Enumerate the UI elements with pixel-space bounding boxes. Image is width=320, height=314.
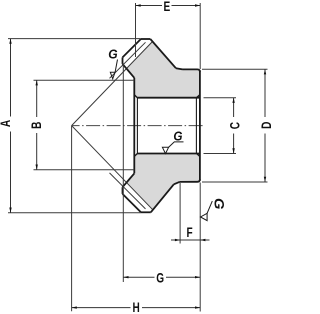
gear body upper gray section — [127, 41, 200, 98]
svg-text:G: G — [156, 270, 164, 286]
bore top surface — [137, 97, 200, 99]
centerline (dash-dot) — [72, 125, 204, 127]
dimension B extension line top — [34, 79, 135, 81]
dimension A line — [10, 39, 12, 213]
surface finish symbol bottom-right (rotated, points at back face): closed triangle — [201, 213, 208, 220]
svg-text:C: C — [227, 122, 243, 129]
gear outline: back cone edge bottom — [151, 184, 174, 212]
svg-text:D: D — [259, 121, 271, 128]
gear outline: front hub face — [133, 78, 135, 174]
dimension H extension line left (from apex) — [71, 126, 73, 312]
gear outline: crown flat top — [141, 38, 150, 40]
dimension B line — [36, 80, 38, 170]
pitch cone line upper (thin, apex to back cone) — [72, 41, 153, 126]
dimension C extension line top — [204, 97, 237, 99]
gear outline: bore entrance chamfer bottom — [134, 154, 137, 157]
bore bottom surface — [137, 153, 200, 155]
dimension E arrow right — [195, 4, 200, 6]
dimension B arrow up — [36, 80, 38, 85]
bore back chamfer edge line — [195, 98, 197, 154]
gear outline: top chamfer to hub — [176, 68, 183, 69]
dimension C arrow down — [232, 148, 234, 153]
gear outline: crown flat bottom — [141, 211, 151, 213]
dimension A arrow down — [9, 208, 11, 213]
dimension G line — [123, 276, 200, 278]
dimension G arrow left — [123, 276, 128, 278]
root cone line upper (thin) — [110, 42, 146, 78]
dimension D extension line top — [202, 68, 268, 70]
surface finish symbol top-left: closed triangle — [110, 72, 115, 79]
dimension H arrow right — [195, 306, 200, 308]
flag stem bore — [169, 142, 184, 147]
dimension E extension line right upper — [199, 3, 201, 69]
gear outline: toe face bottom — [122, 187, 124, 194]
dimension H line — [72, 307, 201, 309]
gear outline: hub back face — [199, 70, 201, 180]
dimension E line — [136, 5, 201, 7]
svg-text:G: G — [108, 47, 118, 61]
dimension F arrow pointing right — [175, 239, 180, 241]
dimension C line — [233, 98, 235, 154]
gear outline: face cone edge top-left — [123, 39, 141, 57]
dimension F line — [171, 239, 210, 241]
root cone line lower (thin) — [110, 173, 146, 209]
svg-text:G: G — [173, 129, 182, 144]
dimension A arrow up — [9, 39, 11, 44]
hub back face extension line lower (shared by F G H dims) — [199, 183, 201, 312]
svg-text:F: F — [187, 225, 193, 241]
dimension E arrow left — [136, 4, 141, 6]
dimension H arrow left — [72, 306, 77, 308]
gear body lower gray section — [127, 154, 200, 211]
surface finish symbol in bore: closed triangle — [162, 147, 168, 153]
gear outline: bottom chamfer to hub — [174, 182, 180, 184]
svg-text:H: H — [133, 299, 140, 314]
bore exit chamfer top — [197, 95, 200, 98]
bore front chamfer edge line — [136, 98, 138, 154]
pitch cone line lower (thin, apex to back cone) — [72, 126, 154, 211]
dimension A extension line top — [8, 38, 141, 40]
dimension D arrow up — [264, 69, 266, 74]
dimension G extension line left (toe face extension) — [122, 64, 124, 282]
gear outline: bore entrance chamfer top — [134, 95, 137, 98]
svg-text:B: B — [29, 121, 45, 128]
gear outline: front cone bottom — [123, 173, 135, 187]
dimension C arrow up — [232, 98, 234, 103]
gear outline: hub top face — [183, 69, 200, 72]
dimension D arrow down — [264, 177, 266, 182]
dimension B arrow down — [36, 165, 38, 170]
flag stem bottom-right — [207, 201, 212, 213]
gear outline: toe face top — [122, 57, 124, 64]
gear outline: face cone edge bottom-left — [123, 194, 141, 212]
dimension F extension line left — [179, 183, 181, 244]
svg-text:A: A — [0, 120, 14, 127]
gear outline: front cone top — [123, 64, 135, 78]
gear outline: hub bottom face — [180, 179, 200, 182]
dimension C extension line bottom — [204, 153, 237, 155]
dimension E extension line left — [135, 3, 137, 57]
dimension F arrow pointing left — [200, 239, 205, 241]
gear outline: back cone edge top — [150, 39, 176, 68]
svg-text:G: G — [211, 198, 227, 209]
svg-text:E: E — [164, 0, 171, 14]
dimension A extension line bottom — [8, 212, 141, 214]
dimension D extension line bottom — [202, 181, 268, 183]
bore exit chamfer bottom — [197, 154, 200, 157]
dimension G arrow right — [195, 276, 200, 278]
dimension D line — [264, 69, 266, 182]
flag stem top-left — [115, 60, 117, 73]
dimension B extension line bottom — [34, 169, 135, 171]
